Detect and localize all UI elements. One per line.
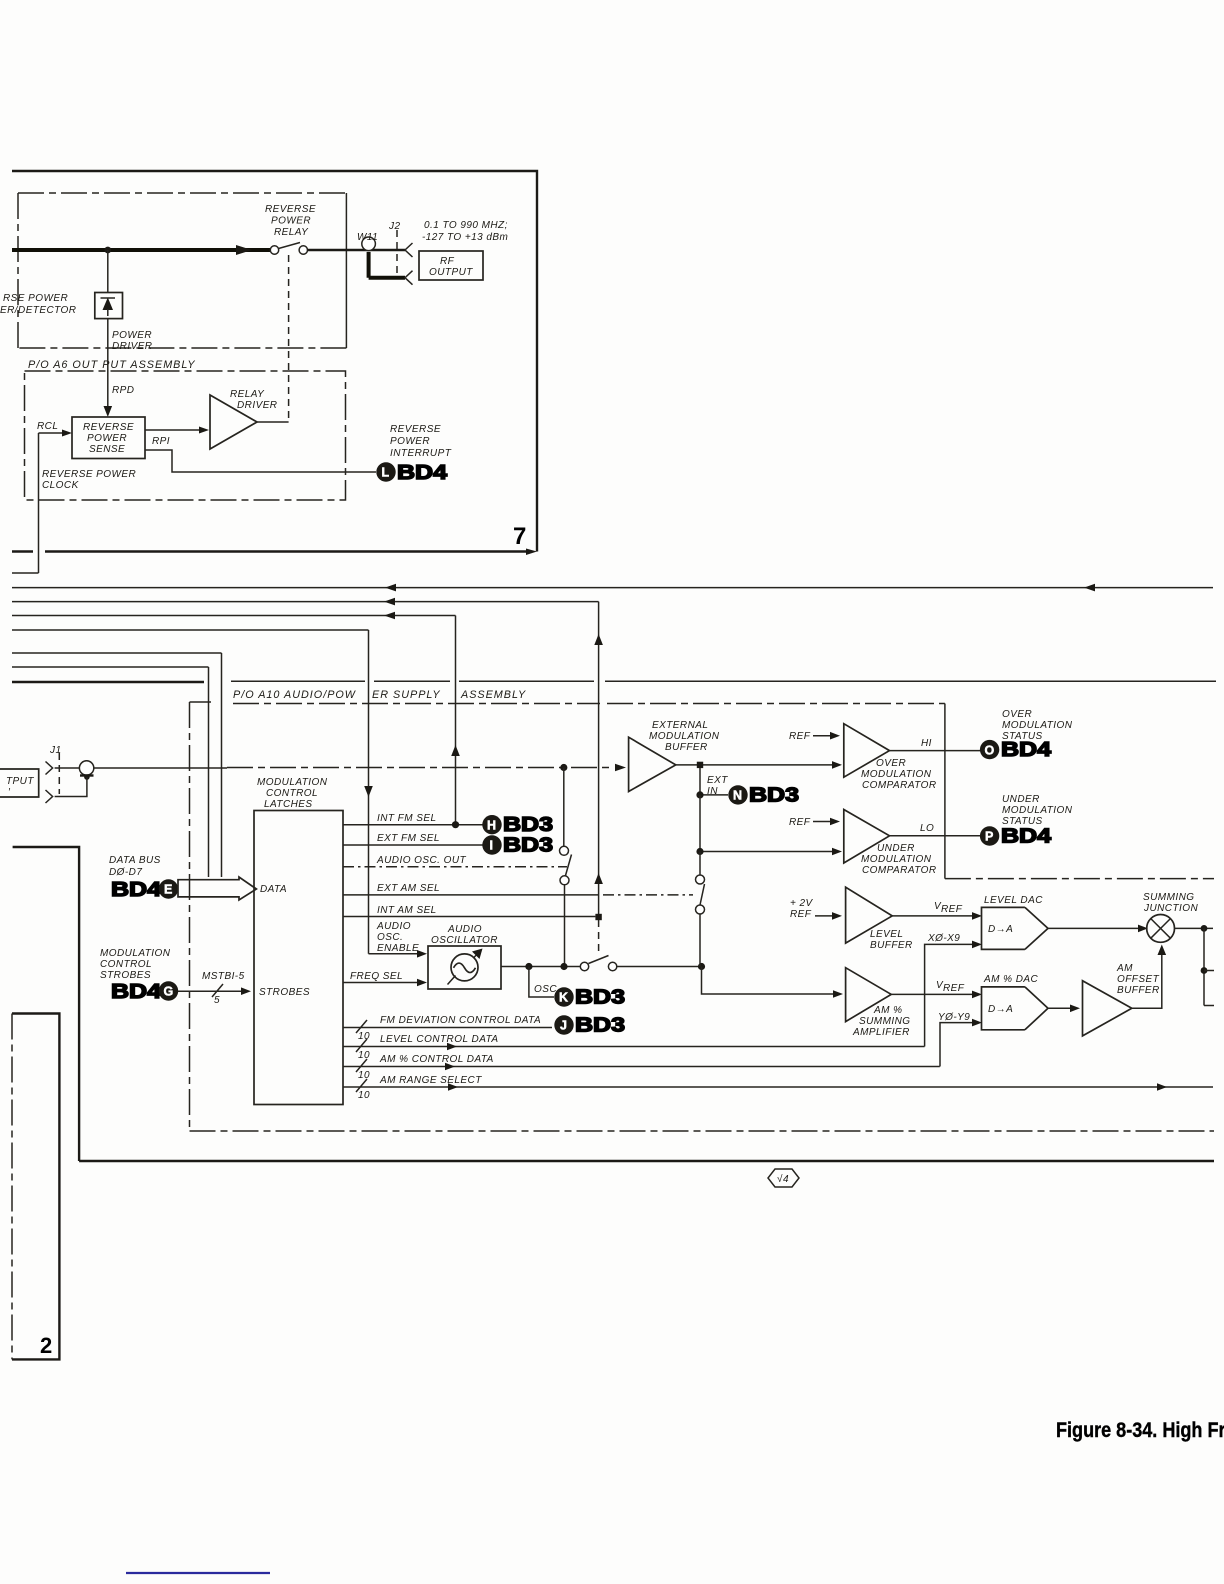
svg-text:BUFFER: BUFFER [1117,985,1160,996]
switch ext am S3 [696,852,705,967]
svg-text:BD3: BD3 [575,986,625,1008]
svg-text:+ 2V: + 2V [790,898,814,909]
box A7 output-section outline 7 [12,171,537,555]
op-amp external modulation buffer [629,720,720,792]
wire LO output [890,823,981,836]
svg-text:REF: REF [943,983,965,994]
svg-text:CONTROL: CONTROL [266,788,318,799]
inner dash-dot enclosure [18,193,346,348]
connector J1 chevrons [46,745,62,803]
connector H BD3 [482,814,553,836]
wire reverse power clock [12,433,39,573]
svg-text:EXTERNAL: EXTERNAL [652,720,708,731]
wire offset buffer to summing junction [1132,945,1166,1009]
wire int fm sel vertical [451,616,460,825]
svg-text:RSE POWER: RSE POWER [3,293,68,304]
svg-text:J2: J2 [388,221,400,232]
wire to under-mod comparator [696,795,842,855]
svg-text:FREQ SEL: FREQ SEL [350,971,403,982]
svg-text:2: 2 [40,1333,52,1358]
wire sense to relay driver [145,427,209,434]
svg-text:BD3: BD3 [575,1014,625,1036]
wire int am sel vertical [594,602,603,952]
svg-text:REVERSE: REVERSE [265,204,316,215]
svg-text:AM % DAC: AM % DAC [983,974,1038,985]
border A10 assembly dash-dot [190,702,1215,1131]
label AUDIO OSC ENABLE [376,921,419,954]
label REVERSE POWER INTERRUPT [390,424,452,459]
svg-text:INTERRUPT: INTERRUPT [390,448,452,459]
connector BD4 G [111,981,178,1003]
svg-text:STROBES: STROBES [259,987,310,998]
svg-text:G: G [164,985,174,999]
wire LEVEL CONTROL DATA [343,1034,925,1061]
bus wire 1 (y 587) [12,584,1213,592]
svg-text:RCL: RCL [37,421,58,432]
svg-text:IN: IN [707,786,718,797]
op-amp relay driver [210,389,277,449]
dac level DAC U2 [982,895,1049,949]
svg-text:OVER: OVER [1002,709,1032,720]
svg-text:XØ-X9: XØ-X9 [927,933,960,944]
bus wire 7 thick (y 682) [12,681,204,683]
box modulation control latches U1 [254,811,343,1105]
connector I BD3 [482,834,553,856]
cable loop W11 [357,232,378,251]
svg-text:AM % CONTROL DATA: AM % CONTROL DATA [379,1054,494,1065]
label output freq range [422,220,508,243]
dac AM % DAC U3 [982,974,1049,1030]
svg-text:COMPARATOR: COMPARATOR [862,780,937,791]
svg-text:BD3: BD3 [503,814,553,836]
svg-text:SUMMING: SUMMING [1143,892,1194,903]
svg-text:REF: REF [941,904,963,915]
box REVERSE POWER SENSE [72,417,145,459]
svg-text:AUDIO: AUDIO [376,921,411,932]
svg-text:BD3: BD3 [749,784,799,806]
svg-text:LEVEL CONTROL DATA: LEVEL CONTROL DATA [380,1034,499,1045]
svg-text:O: O [985,743,995,757]
svg-text:AUDIO OSC. OUT: AUDIO OSC. OUT [376,855,467,866]
svg-text:REVERSE: REVERSE [83,422,134,433]
svg-text:J: J [560,1019,567,1033]
bus wire 6 (y 667) [12,666,209,668]
svg-text:7: 7 [513,523,526,550]
svg-text:UNDER: UNDER [1002,794,1040,805]
svg-text:D→A: D→A [988,1004,1013,1015]
wire relay actuation (dashed) [288,255,290,422]
wire strobes MSTB1-5 [178,971,251,1006]
wire AUDIO OSC OUT dash-dot [343,855,567,867]
connector N BD3 [728,784,799,806]
svg-text:W11: W11 [357,232,378,243]
flag note 4 hexagon [768,1169,799,1187]
wire audio osc enable vertical [364,630,427,958]
wire EXT AM SEL [343,883,693,895]
wire RF return path (thick) [369,252,405,278]
comparator over modulation [789,724,937,791]
svg-text:COMPARATOR: COMPARATOR [862,865,937,876]
svg-text:N: N [733,789,742,803]
svg-text:P/O A10 AUDIO/POW: P/O A10 AUDIO/POW [233,689,357,701]
svg-text:E: E [164,883,172,897]
label P/O A10 AUDIO/POWER SUPPLY ASSEMBLY [233,689,526,701]
svg-text:AMPLIFIER: AMPLIFIER [852,1027,910,1038]
svg-text:10: 10 [358,1050,370,1061]
wire RCL input [37,421,72,437]
wire Vref to AM % dac [891,980,982,998]
wire summing junction outputs [1175,925,1215,1006]
svg-text:BUFFER: BUFFER [665,742,708,753]
wire INT AM SEL [343,905,595,917]
wire Y0-Y9 [938,1012,982,1067]
svg-text:RPD: RPD [112,385,134,396]
svg-text:OUTPUT: OUTPUT [429,267,473,278]
wire FM DEVIATION CONTROL DATA [343,1015,552,1042]
wire oscillator output row [501,963,580,970]
box RF OUTPUT [419,251,483,280]
svg-text:RELAY: RELAY [274,227,309,238]
svg-text:EXT AM SEL: EXT AM SEL [377,883,440,894]
svg-text:POWER: POWER [390,436,430,447]
wire X0-X9 [925,933,982,1047]
svg-text:MODULATION: MODULATION [257,777,328,788]
svg-text:DRIVER: DRIVER [112,341,152,352]
svg-text:EXT FM SEL: EXT FM SEL [377,833,440,844]
svg-text:ENABLE: ENABLE [377,943,419,954]
svg-text:SENSE: SENSE [89,444,125,455]
svg-text:DATA: DATA [260,884,287,895]
wire FREQ SEL [343,971,427,986]
svg-text:BD3: BD3 [503,834,553,856]
svg-text:Figure 8-34. High Frequ: Figure 8-34. High Frequ [1056,1419,1224,1443]
svg-text:SUMMING: SUMMING [859,1016,910,1027]
wire RF to W11 (thick) [308,249,406,251]
connector K BD3 [554,986,625,1008]
label MODULATION CONTROL STROBES [100,948,171,981]
svg-text:REF: REF [789,817,811,828]
svg-text:P: P [985,830,993,844]
svg-text:LEVEL DAC: LEVEL DAC [984,895,1043,906]
wire HI output [890,738,981,751]
svg-text:MSTBI-5: MSTBI-5 [202,971,245,982]
svg-text:RELAY: RELAY [230,389,265,400]
svg-text:REVERSE POWER: REVERSE POWER [42,469,136,480]
wire ext mod to switch S1 [560,764,567,846]
svg-text:YØ-Y9: YØ-Y9 [938,1012,970,1023]
svg-text:AM RANGE SELECT: AM RANGE SELECT [379,1075,482,1086]
svg-text:10: 10 [358,1031,370,1042]
svg-text:RF: RF [440,256,455,267]
op-amp AM % summing amplifier [846,968,911,1038]
wire detector to RF line [107,250,109,293]
connector J2 dashed line [388,221,400,273]
svg-text:REF: REF [789,731,811,742]
label REVERSE POWER CLOCK [42,469,136,491]
data bus hollow arrow [178,877,256,900]
svg-text:TPUT: TPUT [6,776,34,787]
box 2 lower-left assembly [12,1014,59,1360]
svg-text:L: L [382,466,390,480]
connector chevrons at J2 [405,243,413,285]
connector L BD4 [376,462,448,484]
svg-text:I: I [490,839,493,853]
svg-text:UNDER: UNDER [877,843,915,854]
svg-text:AUDIO: AUDIO [447,924,482,935]
wire EXT FM SEL [343,833,483,845]
svg-text:POWER: POWER [87,433,127,444]
svg-text:HI: HI [921,738,932,749]
svg-text:OSCILLATOR: OSCILLATOR [431,935,498,946]
svg-text:H: H [487,818,496,832]
svg-text:POWER: POWER [271,216,311,227]
svg-text:MODULATION: MODULATION [1002,720,1073,731]
connector BD4 E [111,879,178,901]
svg-text:MODULATION: MODULATION [100,948,171,959]
wire level dac to summing junction [1048,925,1148,933]
svg-text:EXT: EXT [707,775,728,786]
wire AM % dac to offset buffer [1048,1005,1080,1013]
svg-text:BD4: BD4 [397,462,448,484]
svg-text:OVER: OVER [876,758,906,769]
oscillator G1 audio oscillator [428,924,501,989]
svg-text:AM: AM [1116,963,1133,974]
wire Vref to level dac [892,901,982,920]
svg-text:BD4: BD4 [111,879,162,901]
bus wire 3 (y 615) [12,612,456,620]
svg-text:DATA BUS: DATA BUS [109,855,161,866]
svg-text:0.1 TO 990 MHZ;: 0.1 TO 990 MHZ; [424,220,508,231]
wire relay driver output [257,421,289,423]
svg-text:BD4: BD4 [1001,739,1052,761]
svg-text:ER/DETECTOR: ER/DETECTOR [0,305,76,316]
label MODULATION CONTROL LATCHES [257,777,328,810]
detector diode D1 [95,293,123,319]
bus wire 2 (y 601) [12,598,599,606]
svg-text:DØ-D7: DØ-D7 [109,867,142,878]
bus wire 4 (y 630) [12,629,369,631]
svg-text:FM DEVIATION CONTROL DATA: FM DEVIATION CONTROL DATA [380,1015,541,1026]
svg-text:INT AM SEL: INT AM SEL [377,905,437,916]
label DATA BUS D0-D7 [109,855,161,878]
summing junction mixer [1143,892,1198,942]
wire RPD [104,319,135,417]
connector J BD3 [554,1014,625,1036]
comparator under modulation [789,810,937,877]
svg-text:INT FM SEL: INT FM SEL [377,813,437,824]
svg-text:P/O A6 OUT PUT ASSEMBLY: P/O A6 OUT PUT ASSEMBLY [28,359,196,371]
wire RPI [145,436,376,472]
switch audio osc out S1 [560,846,572,963]
connector P BD4 [980,825,1052,847]
svg-text:AM %: AM % [873,1005,902,1016]
label REVERSE POWER COUPLER/DETECTOR (cut) [0,293,76,316]
op-amp level buffer [790,887,913,951]
wire INT FM SEL [343,813,483,828]
svg-text:REF: REF [790,909,812,920]
svg-text:MODULATION: MODULATION [861,854,932,865]
svg-text:POWER: POWER [112,330,152,341]
svg-text:MODULATION: MODULATION [649,731,720,742]
box A7 lower assembly (partial) [13,847,1214,1161]
svg-text:ER SUPPLY: ER SUPPLY [372,689,441,701]
switch oscillator output S2 [580,956,705,971]
relay contact switch [270,243,307,255]
svg-text:OSC.: OSC. [377,932,403,943]
box A6 assembly dash-dot [25,371,346,500]
svg-text:5: 5 [214,995,220,1006]
wire ext modulation input [94,764,626,772]
blue pen mark [126,1572,270,1574]
connector O BD4 [980,739,1052,761]
wire EXT IN branch [696,768,728,799]
svg-text:OFFSET: OFFSET [1117,974,1160,985]
label POWER DRIVER [112,330,152,352]
svg-text:DRIVER: DRIVER [237,400,277,411]
svg-text:D→A: D→A [988,924,1013,935]
svg-text:BD4: BD4 [111,981,162,1003]
label REVERSE POWER RELAY [265,204,316,238]
svg-text:MODULATION: MODULATION [861,769,932,780]
label OVER MODULATION STATUS [1002,709,1073,742]
wire buffer output to over-mod comparator [676,761,842,769]
svg-text:10: 10 [358,1090,370,1101]
svg-text:√4: √4 [777,1173,789,1185]
svg-text:REVERSE: REVERSE [390,424,441,435]
wire vertical to data arrow a [221,653,223,877]
wire vertical to data arrow b [208,667,210,877]
box output (cut at left edge) [0,769,39,798]
svg-text:MODULATION: MODULATION [1002,805,1073,816]
svg-text:STROBES: STROBES [100,970,151,981]
svg-text:JUNCTION: JUNCTION [1143,903,1198,914]
svg-text:RPI: RPI [152,436,170,447]
svg-text:CLOCK: CLOCK [42,480,80,491]
label UNDER MODULATION STATUS [1002,794,1073,827]
svg-text:K: K [559,991,568,1005]
svg-text:ASSEMBLY: ASSEMBLY [460,689,526,701]
svg-text:-127 TO +13 dBm: -127 TO +13 dBm [422,232,508,243]
svg-text:BD4: BD4 [1001,825,1052,847]
cable loop at J1 [55,761,94,797]
wire to AM % summing amplifier [702,967,844,998]
wire OSC to K BD3 [529,967,557,998]
svg-text:BUFFER: BUFFER [870,940,913,951]
svg-text:CONTROL: CONTROL [100,959,152,970]
svg-text:LATCHES: LATCHES [264,799,313,810]
bus wire 5 (y 653) [12,652,222,654]
wire RF main (thick) [12,245,270,255]
svg-text:10: 10 [358,1070,370,1081]
op-amp AM offset buffer [1083,963,1160,1036]
wire AM RANGE SELECT [343,1075,1213,1101]
wire AM % CONTROL DATA [343,1054,940,1081]
bus wire 7 thin right part [231,680,1216,682]
svg-text:LEVEL: LEVEL [870,929,903,940]
svg-text:LO: LO [920,823,934,834]
svg-text:OSC: OSC [534,984,557,995]
